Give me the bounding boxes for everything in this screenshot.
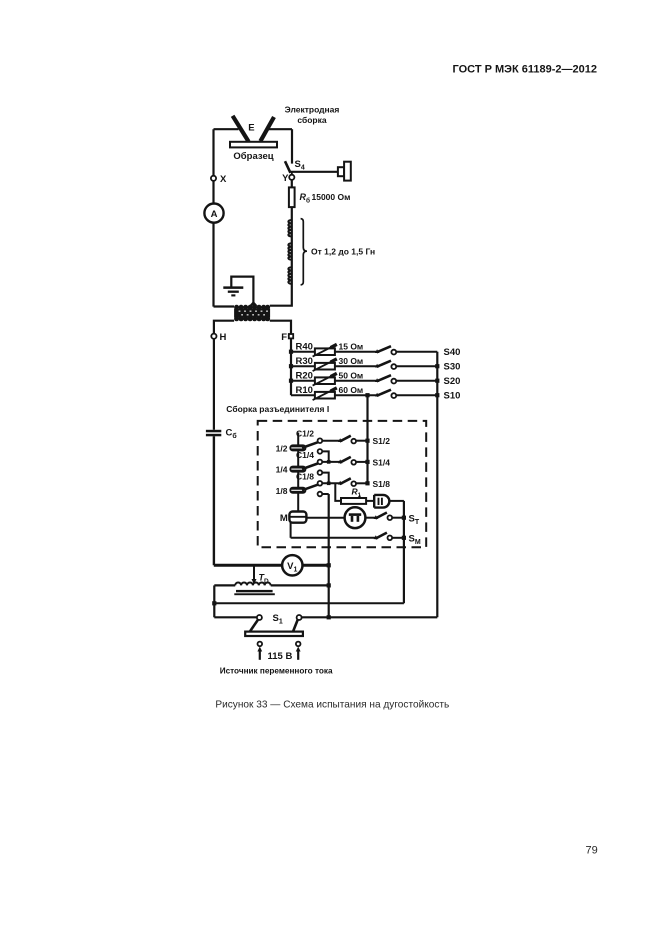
wire row B right (271, 584, 329, 586)
Td wiper wire with arrow (253, 565, 255, 579)
wire H vertical down to Cb (213, 339, 215, 430)
resistor R1 body (341, 498, 366, 504)
svg-text:50 Ом: 50 Ом (339, 371, 364, 381)
wire row B left (214, 584, 235, 586)
source terminal left (258, 642, 263, 647)
node H (211, 334, 216, 339)
wire S1/4 to bus (356, 461, 368, 463)
capacitor C1/2 gap (291, 447, 304, 448)
svg-text:79: 79 (586, 845, 598, 857)
svg-text:60 Ом: 60 Ом (339, 385, 364, 395)
transformer T1 (234, 301, 270, 321)
source terminal right (296, 642, 301, 647)
meter TT glyph leg 2 (357, 516, 360, 522)
node Y circle (289, 175, 294, 180)
svg-text:Н: Н (220, 332, 227, 343)
junction dot (365, 393, 369, 397)
rheostat R10 body (315, 392, 335, 399)
junction S1/8 (365, 481, 369, 485)
switch S40 contact (391, 350, 396, 355)
svg-text:ГОСТ Р МЭК 61189-2—2012: ГОСТ Р МЭК 61189-2—2012 (453, 64, 597, 76)
svg-text:1/4: 1/4 (276, 465, 288, 475)
switch S40 blade (377, 346, 391, 352)
svg-text:1/8: 1/8 (276, 486, 288, 496)
junction dot (289, 379, 293, 383)
switch S1 left contact (257, 615, 262, 620)
resistor R1 branch wire (335, 483, 341, 501)
wire S1/8 chain connector (322, 493, 329, 495)
svg-text:Сборка разъединителя I: Сборка разъединителя I (226, 404, 329, 414)
wire R1 to relay (366, 500, 374, 502)
svg-text:Электродная: Электродная (285, 105, 340, 115)
wire R40 row right segment (396, 351, 437, 353)
ground (223, 286, 243, 289)
svg-text:R20: R20 (296, 371, 313, 382)
wire Cb down to V1 row (213, 436, 215, 565)
svg-text:М: М (280, 513, 288, 524)
rheostat R20 body (315, 377, 335, 384)
far right bus wire (436, 352, 438, 618)
relay K1 core bar 1 (378, 498, 380, 505)
capacitor M body (289, 512, 306, 523)
Td wiper arrowhead (252, 579, 257, 584)
capacitor C1/4 gap (291, 469, 304, 470)
electrode left (233, 116, 249, 142)
transformer T1 center tap bump (249, 301, 258, 306)
switch S30 contact (391, 364, 396, 369)
capacitor C1/8 gap (291, 490, 304, 491)
svg-text:S1/2: S1/2 (373, 436, 391, 446)
capacitor C1/2 body (289, 444, 306, 451)
inductor L1 (0.8-1.5 H) (291, 220, 293, 288)
bus X wire down (328, 494, 330, 617)
rheostat R30 arrowhead (331, 359, 337, 362)
wire S1/2 chain connector (322, 451, 329, 462)
junction S1/4 (365, 460, 369, 464)
resistor row R10 60 Ом (291, 385, 460, 402)
ground bar 3 (231, 294, 235, 296)
svg-text:SМ: SМ (409, 533, 421, 546)
ground bar 2 (228, 291, 239, 293)
svg-text:R30: R30 (296, 356, 313, 367)
svg-text:F: F (281, 332, 287, 343)
rheostat R30 arrow (313, 359, 337, 371)
dashed box (disconnector assembly) (258, 421, 427, 547)
capacitor C1/4 (276, 450, 318, 475)
node X (211, 176, 216, 181)
switch S1/8 contact circle (351, 481, 356, 486)
transformer T1 core band (234, 309, 270, 318)
junction dot (327, 583, 331, 587)
junction dot (289, 364, 293, 368)
resistor row R20 50 Ом (291, 371, 460, 388)
svg-text:Рисунок 33 — Схема испытания н: Рисунок 33 — Схема испытания на дугостой… (215, 700, 449, 711)
svg-text:Y: Y (282, 173, 289, 184)
rheostat R20 arrow (313, 374, 337, 386)
wire F vertical (290, 338, 292, 395)
relay K1 body (374, 495, 389, 508)
inductor L1 winding group 3 (288, 267, 291, 284)
node S1/4 upper contact (318, 460, 323, 465)
switch S20 contact (391, 379, 396, 384)
wire St to bus (392, 517, 404, 519)
wire row D (S1 row) (214, 616, 437, 618)
switch S40 pivot (375, 349, 379, 353)
junction dot (435, 379, 439, 383)
node S1/4 lower contact (318, 470, 323, 475)
junction dot (212, 601, 216, 605)
switch S1/2 row (318, 436, 391, 464)
wire left vertical rows B-D (213, 585, 215, 617)
capacitor Cb (206, 430, 221, 433)
switch S1/4 pivot (338, 459, 342, 463)
node S1/2 lower contact (318, 449, 323, 454)
switch S1/8 blade (340, 478, 351, 484)
relay K1 core bar 2 (381, 498, 383, 505)
wire from Y to jack (290, 171, 338, 173)
svg-text:R40: R40 (296, 342, 313, 353)
switch C1/8 blade (302, 485, 318, 491)
svg-text:SТ: SТ (409, 513, 420, 526)
source terminal right arrowhead (296, 647, 301, 652)
svg-text:Rб: Rб (300, 192, 311, 205)
svg-text:30 Ом: 30 Ом (339, 356, 364, 366)
svg-text:S20: S20 (444, 376, 461, 387)
inductor L1 winding group 2 (288, 243, 291, 259)
switch S1 left blade (250, 620, 258, 632)
wire row C (214, 602, 404, 604)
switch S1 crossbar (245, 632, 303, 636)
capacitor M (280, 512, 307, 524)
capacitor C1/8 body (289, 487, 306, 494)
source terminal right lead (297, 650, 299, 660)
switch S1 right contact (297, 615, 302, 620)
wire R40 row left segment (291, 351, 377, 353)
wire S1/4 chain connector (322, 473, 329, 484)
wire S1/4 row (322, 461, 340, 463)
switch S1/2 contact circle (351, 439, 356, 444)
svg-text:С1/8: С1/8 (296, 471, 314, 481)
junction dot (327, 563, 331, 567)
node S1/8 upper contact (318, 481, 323, 486)
svg-text:S4: S4 (295, 159, 305, 172)
wire right vertical to switch S4 (291, 129, 293, 163)
switch S10 blade (377, 390, 391, 396)
wire S1/8 row (322, 482, 340, 484)
ground tap wire (231, 277, 253, 305)
switch S1/4 row (318, 457, 391, 485)
svg-text:115 В: 115 В (268, 651, 293, 662)
switch Sm pivot (374, 535, 378, 539)
switch S1/2 blade (340, 436, 351, 442)
junction Sm (402, 536, 406, 540)
junction S1/4 chain dot (327, 482, 331, 486)
source terminal left arrowhead (257, 647, 262, 652)
svg-text:S1/4: S1/4 (373, 457, 391, 467)
transformer T1 core specks (239, 311, 268, 316)
switch S1 right blade (293, 620, 298, 632)
switch Sm contact circle (388, 536, 393, 541)
node F square (289, 334, 293, 338)
wire Y to resistor (291, 180, 293, 187)
Td core bar 2 (234, 593, 274, 595)
svg-text:15000 Ом: 15000 Ом (312, 192, 351, 202)
svg-text:С1/4: С1/4 (296, 450, 314, 460)
wire R30 row left segment (291, 365, 377, 367)
rheostat R40 body (315, 348, 335, 355)
svg-text:сборка: сборка (297, 115, 327, 125)
transformer T1 bottom winding (234, 316, 270, 321)
rheostat R10 arrowhead (331, 388, 337, 391)
switch S1/8 row (318, 478, 391, 496)
capacitor M plate line (289, 516, 306, 518)
svg-text:Образец: Образец (233, 151, 273, 162)
rheostat R40 arrow (313, 345, 337, 357)
svg-text:S1: S1 (273, 613, 283, 626)
junction dot (435, 364, 439, 368)
wire M bottom to Sm row (290, 523, 292, 538)
switch Sm blade (375, 533, 387, 539)
wire TT to switch St (365, 517, 375, 519)
bus Z wire (to disconnector assembly) (366, 395, 368, 483)
junction dot (327, 615, 331, 619)
wire S1/8 to bus (356, 482, 368, 484)
wire Sm to bus (392, 537, 404, 539)
switch St contact circle (388, 515, 393, 520)
wire secondary bottom-left (214, 321, 234, 334)
bus Y wire (403, 501, 405, 603)
switch St (374, 513, 420, 526)
resistor row R30 30 Ом (291, 356, 460, 373)
capacitor bus wire (297, 433, 299, 512)
wire left vertical to transformer left (214, 305, 235, 307)
wire R10 row right segment (396, 394, 437, 396)
switch Sm (374, 533, 421, 546)
svg-text:Источник переменного тока: Источник переменного тока (220, 666, 333, 675)
jack symbol body (344, 162, 351, 181)
svg-text:От 1,2 до 1,5 Гн: От 1,2 до 1,5 Гн (311, 247, 375, 257)
switch S1/2 pivot (338, 438, 342, 442)
switch C1/2 blade (302, 442, 318, 448)
rheostat R40 arrowhead (331, 344, 337, 347)
switch St blade (375, 513, 387, 519)
meter TT circle (345, 507, 366, 528)
meter TT (345, 507, 366, 528)
wire relay to bus Y (389, 500, 404, 502)
wire left vertical (X / ammeter branch) (212, 129, 214, 306)
switch S10 pivot (375, 393, 379, 397)
autotransformer Td winding (235, 582, 270, 585)
switch St pivot (374, 515, 378, 519)
Td core bars (236, 590, 273, 592)
switch S30 blade (377, 361, 391, 367)
switch S1 (245, 613, 303, 636)
jack symbol (338, 167, 344, 176)
capacitor Cб lower plate (206, 434, 221, 437)
wire R10 row left segment (291, 394, 377, 396)
label R1 leader (359, 495, 361, 498)
svg-text:X: X (220, 174, 227, 185)
svg-text:15 Ом: 15 Ом (339, 342, 364, 352)
resistor Rb (289, 187, 295, 207)
wire S1/2 row (322, 440, 340, 442)
capacitor C1/2 (276, 428, 318, 453)
electrode right (260, 117, 274, 141)
brace for inductance value (301, 219, 307, 285)
capacitor C1/4 body (289, 466, 306, 473)
ammeter A1 (204, 204, 223, 223)
inductor L1 winding group 1 (288, 220, 291, 237)
svg-text:1/2: 1/2 (276, 443, 288, 453)
rheostat R10 arrow (313, 388, 337, 400)
switch S10 contact (391, 393, 396, 398)
junction S1/2 (365, 439, 369, 443)
wire row A (V1 row) (214, 564, 329, 567)
specimen bar (Образец) (230, 142, 277, 148)
wire R20 row right segment (396, 380, 437, 382)
wire inductor to transformer right (270, 287, 292, 306)
svg-text:А: А (211, 209, 218, 220)
switch S1/4 contact circle (351, 460, 356, 465)
switch C1/4 blade (302, 464, 318, 470)
switch S20 blade (377, 375, 391, 381)
switch S1/8 pivot (338, 481, 342, 485)
switch S1/4 blade (340, 457, 351, 463)
switch S20 pivot (375, 378, 379, 382)
resistor row R40 15 Ом (291, 342, 460, 359)
svg-text:S30: S30 (444, 362, 461, 373)
wire top-left horizontal (214, 128, 239, 130)
junction St (402, 516, 406, 520)
svg-text:Е: Е (248, 123, 254, 134)
node S1/2 upper contact (318, 438, 323, 443)
wire top-right horizontal (267, 128, 293, 130)
meter TT glyph leg 1 (351, 516, 354, 522)
wire S1/2 to bus (356, 440, 368, 442)
node S1/8 lower contact (318, 492, 323, 497)
switch Sm row wire (291, 537, 376, 539)
junction S1/2 chain dot (327, 460, 331, 464)
wire R30 row right segment (396, 365, 437, 367)
rheostat R30 body (315, 363, 335, 370)
svg-text:S1/8: S1/8 (373, 479, 391, 489)
wire resistor to inductor (291, 207, 293, 219)
svg-text:Сб: Сб (226, 428, 238, 441)
junction dot (435, 393, 439, 397)
switch S4 blade (285, 161, 290, 173)
switch S30 pivot (375, 364, 379, 368)
wire secondary bottom-right (270, 321, 291, 334)
svg-text:R10: R10 (296, 385, 313, 396)
capacitor C1/8 (276, 471, 318, 495)
voltmeter V1 (282, 555, 302, 575)
junction dot (289, 350, 293, 354)
wire R20 row left segment (291, 380, 377, 382)
relay coil (counter) (374, 495, 389, 508)
source terminal left lead (259, 650, 261, 660)
svg-text:С1/2: С1/2 (296, 428, 314, 438)
svg-text:S10: S10 (444, 391, 461, 402)
svg-text:S40: S40 (444, 347, 461, 358)
wire M to TT (306, 517, 344, 519)
rheostat R20 arrowhead (331, 373, 337, 376)
meter TT glyph bar (349, 513, 361, 516)
